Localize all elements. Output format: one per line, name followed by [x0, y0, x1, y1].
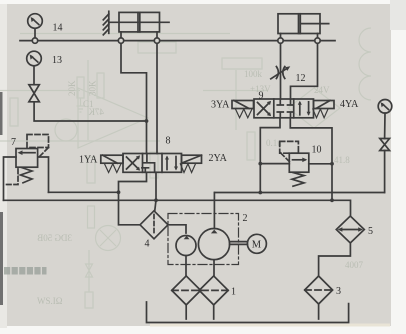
junction valve10 outlet tee	[330, 162, 334, 166]
left cylinder fixed wall	[108, 11, 110, 33]
wire valve7 right port to upper rail	[38, 157, 49, 192]
svg-text:3YA: 3YA	[211, 100, 230, 111]
relief valve 7 pilot box (dashed)	[27, 135, 49, 148]
wire valve7 left port to tank rail	[4, 157, 17, 200]
wire valve9 P port	[260, 118, 280, 193]
left cylinder body	[119, 12, 160, 32]
svg-text:47K: 47K	[88, 107, 104, 117]
wire gauge14 stem	[34, 28, 36, 38]
svg-text:100k: 100k	[244, 69, 263, 79]
filter 5	[336, 216, 364, 243]
wire right cylinder port B down	[317, 34, 319, 39]
top bus wire	[20, 40, 335, 42]
valve8 centre closed symbols	[143, 154, 155, 173]
upper right rail	[215, 192, 385, 194]
valve9 left square X arrows	[258, 103, 270, 115]
right gauge	[378, 100, 392, 114]
scanner edge marks	[0, 92, 3, 135]
valve 9 body	[254, 99, 314, 118]
svg-text:4007: 4007	[345, 260, 364, 270]
pressure gauge 13	[27, 51, 42, 66]
shutoff valve below gauge 13	[29, 85, 39, 102]
valve9 right square arrows	[299, 103, 301, 115]
svg-text:30K: 30K	[88, 80, 98, 96]
wire filter4 to pump1	[168, 225, 186, 233]
motor M	[247, 234, 266, 253]
relief valve 7 body	[16, 149, 38, 168]
wire filter5 down to filter3	[319, 243, 351, 276]
pump large	[198, 229, 229, 260]
junction tank rail / valve9 T	[330, 198, 334, 202]
valve8 left square X arrows	[127, 157, 139, 169]
svg-text:13: 13	[52, 55, 62, 66]
svg-text:12: 12	[296, 73, 306, 84]
wire valve10 inlet	[260, 163, 289, 165]
wire valve10 outlet	[309, 163, 332, 165]
wire from shutoff valve to node A	[34, 102, 146, 121]
node circle left cylinder A on bus	[118, 38, 123, 43]
svg-text:3DG 50B: 3DG 50B	[37, 233, 72, 243]
wire left cylinder port A down	[120, 32, 122, 38]
wire riser to filter 4	[119, 192, 141, 225]
wire right gauge branch	[384, 151, 386, 193]
svg-text:20K: 20K	[67, 80, 77, 96]
wire right cylinder port A down	[280, 34, 282, 39]
wire left cylinder port B down	[156, 32, 158, 38]
svg-text:WS.IΩ: WS.IΩ	[37, 296, 63, 306]
valve9 centre closed symbols	[277, 101, 283, 106]
unit 2 dash-dot box	[168, 214, 239, 265]
valve9 right solenoid	[314, 101, 335, 109]
right shutoff valve	[380, 139, 390, 151]
filter 4	[140, 211, 168, 239]
left cylinder rod	[109, 21, 138, 23]
valve 8 body	[123, 154, 182, 173]
relief valve 10	[289, 153, 309, 172]
junction valve10 inlet tee	[258, 162, 262, 166]
wire pump suctions	[185, 256, 187, 276]
valve9 left solenoid	[232, 101, 254, 109]
wire gauge13 to valve	[33, 66, 35, 85]
node junction circle on bus	[32, 38, 37, 43]
node circle left cylinder B on bus	[154, 38, 159, 43]
junction on upper left rail	[117, 190, 121, 194]
wire valve8 T port	[155, 172, 157, 200]
wire circle to valve8 A (jog)	[121, 43, 147, 153]
valve8 right square arrows	[166, 158, 168, 170]
junction tank rail / valve8 T	[154, 198, 158, 202]
svg-text:3: 3	[336, 286, 341, 297]
filter 3	[305, 276, 333, 304]
wire circle to valve9 A (with throttle)	[280, 43, 282, 99]
wire circle to valve8 B	[156, 43, 158, 153]
svg-text:14: 14	[53, 23, 63, 34]
svg-text:41.8: 41.8	[334, 155, 350, 165]
svg-text:2: 2	[243, 213, 248, 224]
wire valve8 P port	[119, 172, 147, 192]
svg-text:8: 8	[166, 136, 171, 147]
relief valve 7 spring	[21, 168, 33, 183]
wire circle to valve9 B (jog)	[291, 43, 318, 99]
valve8 left solenoid	[101, 155, 123, 163]
svg-text:7: 7	[11, 137, 16, 148]
node circle right cylinder A on bus	[278, 38, 283, 43]
junction P line on upper right rail	[258, 191, 262, 195]
svg-text:5: 5	[368, 226, 373, 237]
pressure gauge 14	[28, 14, 43, 29]
svg-text:M: M	[252, 239, 262, 250]
wire pump pressure riser	[213, 193, 215, 229]
valve8 right solenoid	[182, 155, 202, 163]
svg-text:1: 1	[231, 287, 236, 298]
wire valve9 T port	[290, 118, 332, 201]
bleedthrough group	[0, 28, 371, 308]
tank	[147, 302, 349, 323]
pump small	[176, 236, 196, 256]
svg-text:9: 9	[259, 91, 264, 102]
relief valve 7 drain (dashed)	[5, 169, 19, 185]
node circle right cylinder B on bus	[315, 38, 320, 43]
right cylinder body	[278, 14, 320, 34]
right cylinder rod	[300, 23, 328, 25]
wire lower tank rail	[4, 200, 351, 216]
filter 1 double	[172, 276, 201, 305]
svg-text:4YA: 4YA	[340, 99, 359, 110]
left cylinder piston	[137, 12, 139, 32]
svg-text:10: 10	[312, 145, 322, 156]
throttle valve 12	[276, 67, 278, 79]
wire upper left rail	[49, 191, 119, 193]
svg-text:2YA: 2YA	[209, 153, 228, 164]
node A junction dot	[145, 119, 149, 123]
svg-text:1YA: 1YA	[79, 155, 98, 166]
svg-text:4: 4	[145, 239, 150, 250]
